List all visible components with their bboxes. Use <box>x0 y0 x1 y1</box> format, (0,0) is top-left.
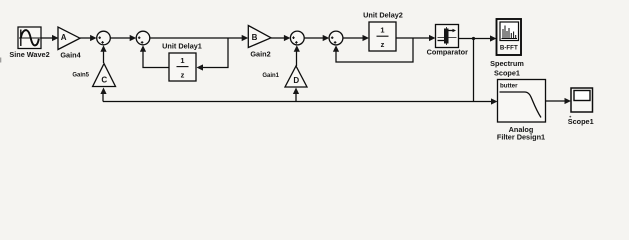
wire Gain1 output up to Sum3 <box>296 50 298 66</box>
svg-text:Gain4: Gain4 <box>60 51 81 60</box>
arrowhead into Sum4 bottom <box>333 45 339 52</box>
svg-text:C: C <box>101 76 107 85</box>
wire feedback branch down from Unit Delay2 output to Sum4 <box>336 38 413 62</box>
wire Gain2 to Sum3 <box>271 37 285 39</box>
arrowhead into Sum2 <box>130 35 137 41</box>
arrowhead into Sum2 bottom <box>140 45 146 52</box>
arrowhead into Analog Filter Design1 <box>491 98 498 104</box>
arrowhead into Sum1 bottom <box>100 45 106 52</box>
arrowhead into Gain2 <box>242 35 249 41</box>
svg-text:Unit Delay2: Unit Delay2 <box>363 11 403 20</box>
svg-text:z: z <box>181 71 185 80</box>
arrowhead into Gain5 base <box>100 88 106 95</box>
wire Comparator to Spectrum Scope <box>459 38 492 40</box>
wire Gain5 output up to Sum1 <box>103 50 105 63</box>
svg-text:Sine Wave2: Sine Wave2 <box>9 50 49 59</box>
arrowhead into Unit Delay1 right side <box>197 64 204 70</box>
scope block B-FFT Spectrum Scope1 <box>497 19 522 55</box>
wire Sum4 to Unit Delay2 <box>343 37 364 39</box>
arrowhead into Unit Delay2 <box>363 35 370 41</box>
gain Gain5 (points up) <box>93 64 116 87</box>
svg-text:z: z <box>381 40 385 49</box>
svg-text:Spectrum: Spectrum <box>490 59 524 68</box>
svg-text:Gain1: Gain1 <box>262 73 279 79</box>
scope block Scope1 <box>571 88 593 112</box>
wire branch down to Unit Delay1 input <box>203 38 229 68</box>
wire Sine Wave2 to Gain4 <box>41 37 53 39</box>
arrowhead into Comparator <box>429 35 436 41</box>
svg-text:Filter Design1: Filter Design1 <box>497 133 545 142</box>
wire up into Gain1 <box>295 92 297 102</box>
gain Gain1 (points up) <box>285 66 307 87</box>
wire Unit Delay2 output to Comparator <box>396 37 430 39</box>
arrowhead into Gain1 base <box>293 88 299 95</box>
arrowhead into Gain4 <box>52 35 59 41</box>
unit delay block Unit Delay2 <box>369 22 396 51</box>
gain Gain4 <box>58 27 80 50</box>
filter block Analog Filter Design1 <box>498 80 546 123</box>
sum junction Sum1 <box>97 31 111 45</box>
wire Unit Delay1 output up to Sum2 <box>143 50 169 68</box>
svg-text:butter: butter <box>500 83 518 90</box>
wire feedback from comparator output down and across bottom <box>473 39 475 102</box>
arrowhead into Sum1 <box>90 35 97 41</box>
wire Gain4 to Sum1 <box>80 37 91 39</box>
scan speck <box>0 58 1 63</box>
wire into Analog Filter Design1 <box>474 101 493 103</box>
arrowhead into Sum3 bottom <box>294 45 300 52</box>
arrowhead into Spectrum Scope <box>490 35 497 41</box>
svg-text:1: 1 <box>180 56 184 65</box>
arrowhead into Sum3 <box>284 35 291 41</box>
svg-text:D: D <box>293 76 299 85</box>
wire Sum3 to Sum4 <box>304 37 324 39</box>
sum junction Sum3 <box>290 31 304 45</box>
svg-text:Comparator: Comparator <box>427 48 469 57</box>
gain Gain2 <box>248 26 271 48</box>
wire Analog Filter Design1 to Scope1 <box>546 100 566 102</box>
wire Sum1 to Sum2 <box>110 37 131 39</box>
svg-text:Scope1: Scope1 <box>568 117 594 126</box>
source block Sine Wave2 <box>18 27 41 49</box>
svg-text:Unit Delay1: Unit Delay1 <box>162 42 202 51</box>
arrowhead into Sum4 <box>323 35 330 41</box>
junction node on comparator output <box>472 37 475 40</box>
scan speck <box>569 116 571 118</box>
svg-text:Scope1: Scope1 <box>494 69 520 78</box>
relay block Comparator <box>436 25 459 48</box>
svg-text:Gain2: Gain2 <box>250 50 270 59</box>
sum junction Sum2 <box>136 31 150 45</box>
svg-text:B: B <box>252 33 258 42</box>
wire Sum2 to Gain2 with branch node at x=228 <box>150 37 243 39</box>
wire bottom feedback line <box>103 101 474 103</box>
wire up into Gain5 <box>102 92 104 102</box>
svg-text:A: A <box>61 33 67 42</box>
sum junction Sum4 <box>329 31 343 45</box>
svg-text:1: 1 <box>380 26 384 35</box>
svg-text:Gain5: Gain5 <box>72 73 89 79</box>
svg-text:B-FFT: B-FFT <box>500 45 518 52</box>
arrowhead into Scope1 <box>565 98 572 104</box>
unit delay block Unit Delay1 <box>169 53 196 81</box>
